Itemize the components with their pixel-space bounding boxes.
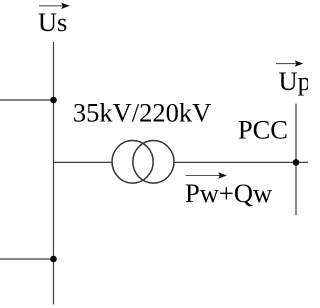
bus Us (left vertical 35kV bus) — [53, 42, 55, 305]
wire W4 (transformer secondary to PCC bus and beyond right edge) — [174, 161, 308, 163]
node C (junction dot on PCC bus) — [293, 159, 300, 166]
vector arrow over Us — [39, 3, 70, 9]
svg-text:35kV/220kV: 35kV/220kV — [73, 97, 211, 127]
transformer T1 primary winding (left circle) — [112, 141, 153, 184]
transformer T1 secondary winding (right circle) — [133, 141, 174, 184]
svg-text:Pw+Qw: Pw+Qw — [185, 178, 273, 208]
svg-text:Up: Up — [279, 66, 309, 96]
svg-text:Us: Us — [38, 7, 67, 37]
wire W2 (source feeder, bottom-left, into bus) — [0, 258, 54, 260]
wire W3 (left bus to transformer primary) — [54, 161, 113, 163]
node A (junction dot, top of left bus) — [50, 97, 57, 104]
bus PCC (right vertical 220kV bus) — [295, 104, 297, 215]
vector arrow over Pw+Qw — [186, 172, 227, 178]
wire W1 (source feeder, top-left, into bus) — [0, 99, 54, 101]
vector arrow over Up — [276, 60, 303, 66]
node B (junction dot, bottom of left bus) — [50, 256, 57, 263]
svg-text:PCC: PCC — [238, 114, 288, 144]
